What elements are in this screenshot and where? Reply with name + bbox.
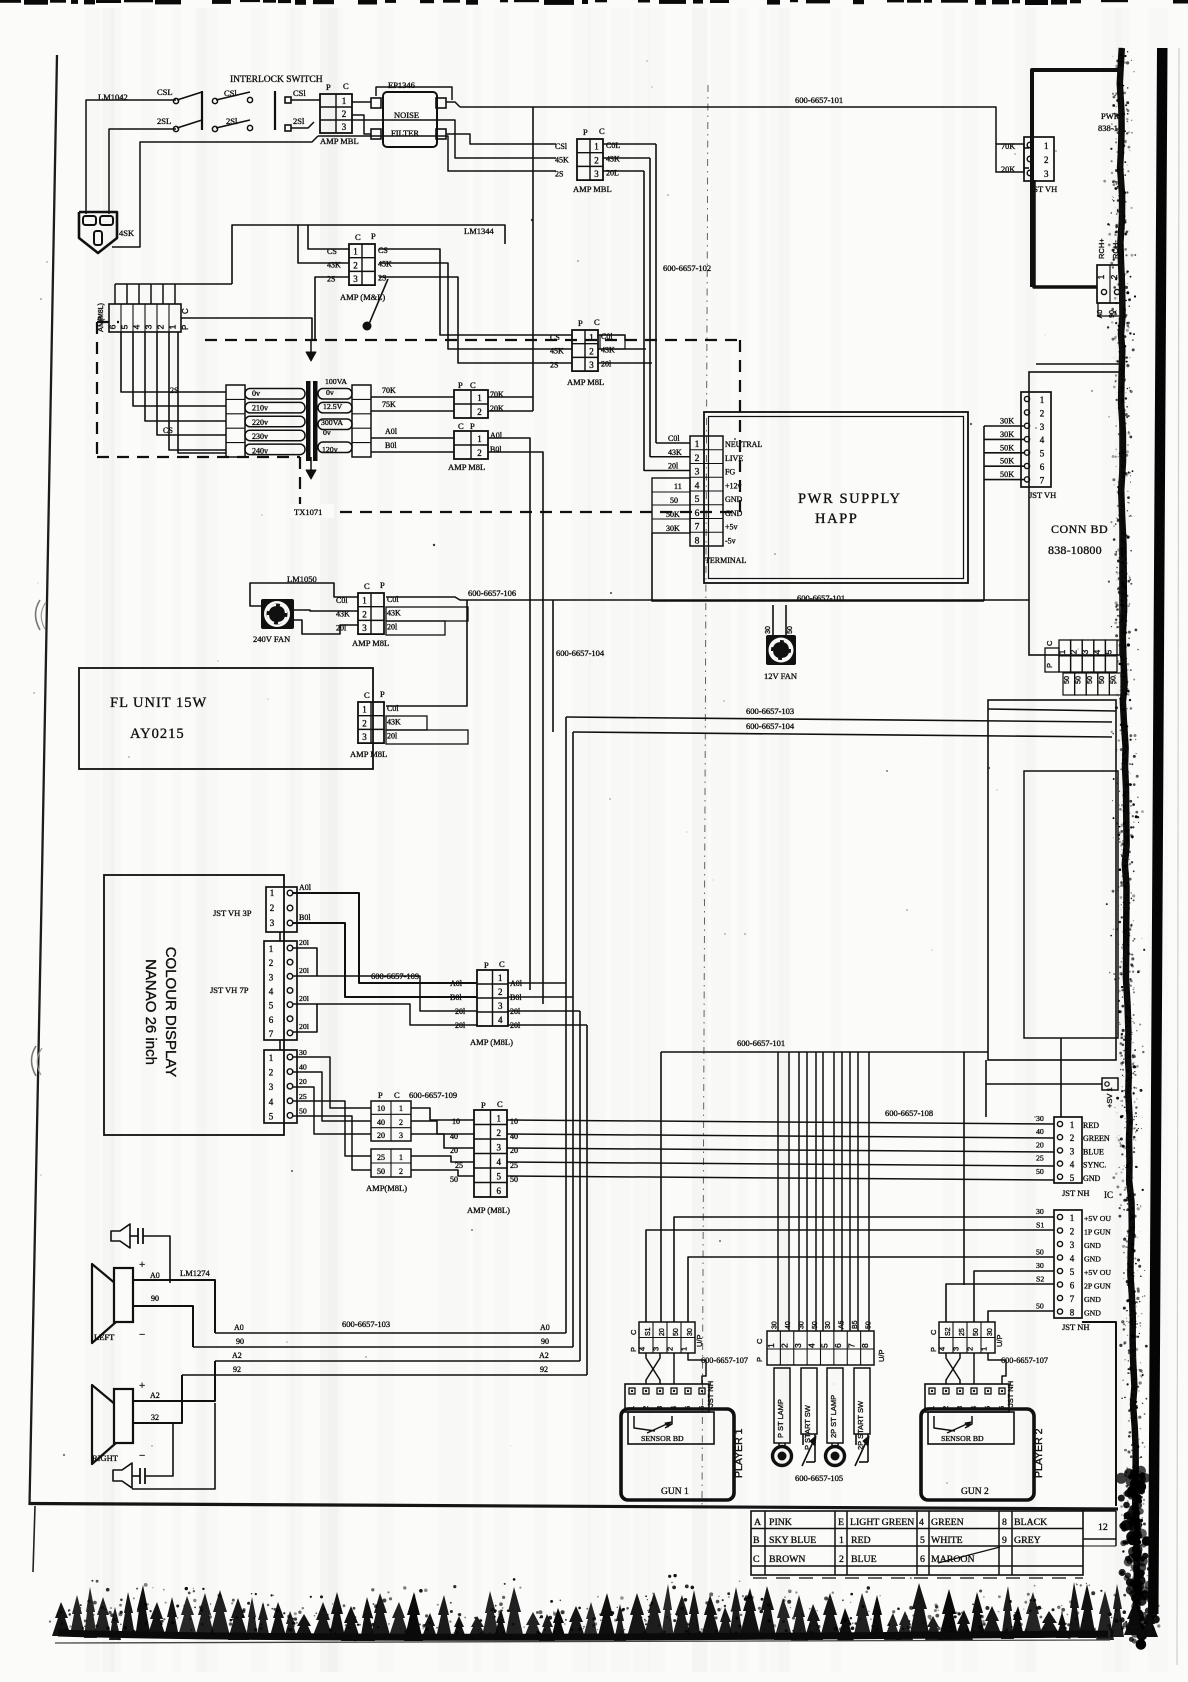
- mains plug 4SK: [79, 212, 135, 253]
- label PLAYER 1: [733, 1428, 745, 1478]
- svg-text:2: 2: [839, 1554, 844, 1565]
- wire video long 5: [507, 1176, 1054, 1180]
- svg-text:E: E: [838, 1517, 844, 1528]
- svg-text:IC: IC: [1104, 1190, 1113, 1200]
- svg-text:1: 1: [1097, 274, 1106, 279]
- label JST NH gun: [1062, 1322, 1089, 1332]
- wire 6pin top stubs: [115, 284, 232, 304]
- svg-text:AMP (M8L): AMP (M8L): [467, 1205, 510, 1215]
- svg-text:AMP MBL: AMP MBL: [573, 184, 612, 194]
- svg-text:5: 5: [269, 1001, 274, 1011]
- wire speakerR plus: [133, 1361, 215, 1401]
- label CONN BD: [1048, 522, 1108, 557]
- wire 6pin tap 3: [145, 332, 226, 421]
- svg-text:1: 1: [1058, 649, 1067, 654]
- connector JST NH 5p video: [1054, 1117, 1082, 1183]
- svg-text:90: 90: [151, 1294, 159, 1303]
- svg-text:3: 3: [498, 1001, 503, 1011]
- wire A0l display: [293, 883, 477, 983]
- svg-text:A: A: [754, 1517, 761, 1528]
- label 600-6657-101 low: [737, 1038, 785, 1048]
- svg-text:B0l: B0l: [385, 441, 397, 450]
- noise filter EP1346: [371, 92, 446, 147]
- svg-text:1: 1: [399, 1153, 403, 1162]
- label AMP (MBL) 4pin: [470, 1037, 513, 1047]
- svg-text:6: 6: [1070, 1281, 1075, 1291]
- svg-text:P: P: [929, 1347, 938, 1352]
- svg-text:20: 20: [450, 1146, 458, 1155]
- svg-text:C: C: [753, 1554, 760, 1565]
- svg-text:2: 2: [589, 346, 594, 356]
- connector U/P 8pin lamps: [755, 1331, 886, 1365]
- svg-text:3: 3: [362, 623, 367, 633]
- svg-text:3: 3: [594, 169, 599, 179]
- svg-text:AY0215: AY0215: [130, 726, 185, 742]
- svg-text:30: 30: [987, 1328, 994, 1336]
- svg-text:CS: CS: [378, 246, 388, 255]
- svg-text:50: 50: [1085, 676, 1094, 684]
- svg-text:600-6657-101: 600-6657-101: [737, 1038, 785, 1048]
- wire 6pin to dashed bus: [181, 318, 312, 340]
- svg-text:2S: 2S: [555, 169, 563, 178]
- svg-text:C: C: [499, 959, 505, 969]
- wire 6pin link: [232, 225, 505, 284]
- wire video pin3: [293, 1087, 371, 1134]
- svg-text:GREEN: GREEN: [1083, 1134, 1110, 1143]
- label 600-6657-107 P2: [1001, 1356, 1048, 1365]
- svg-text:P: P: [371, 231, 376, 241]
- dashed shield drop: [299, 457, 301, 512]
- svg-text:B0l: B0l: [299, 913, 311, 922]
- svg-text:EP1346: EP1346: [388, 80, 415, 90]
- label 600-6657-106: [468, 588, 516, 598]
- svg-text:4: 4: [937, 1347, 946, 1351]
- label gun pin 4 GND: [1084, 1255, 1101, 1264]
- svg-text:25: 25: [377, 1153, 385, 1162]
- label terminal 50K: [666, 510, 680, 519]
- label CS primary: [163, 426, 173, 435]
- table row 1: [754, 1517, 1047, 1528]
- svg-text:600-6657-108: 600-6657-108: [885, 1108, 933, 1118]
- wire 20K right: [488, 410, 533, 412]
- svg-text:2: 2: [965, 1347, 974, 1351]
- label TERMINAL: [705, 556, 746, 565]
- label video GND: [1083, 1174, 1101, 1183]
- svg-text:2: 2: [156, 324, 166, 329]
- svg-text:C: C: [181, 308, 190, 314]
- label LM1274: [180, 1268, 211, 1278]
- wire fan stub 1: [765, 605, 773, 635]
- svg-text:RED: RED: [1083, 1121, 1099, 1130]
- terminal block PWR SUPPLY: [690, 436, 762, 546]
- svg-text:30: 30: [772, 1321, 779, 1329]
- svg-text:2: 2: [269, 958, 274, 968]
- label tap 230v: [252, 432, 268, 441]
- wire +5V link: [986, 1084, 1102, 1117]
- wire gun S1: [646, 1230, 1054, 1322]
- svg-text:2: 2: [498, 987, 503, 997]
- svg-text:2P START SW: 2P START SW: [856, 1400, 865, 1450]
- table row 3: [753, 1554, 975, 1565]
- svg-text:8: 8: [860, 1343, 870, 1348]
- wire 75K: [371, 400, 454, 411]
- svg-text:B0l: B0l: [450, 993, 462, 1002]
- svg-text:50K: 50K: [1000, 470, 1014, 479]
- PWR SUPPLY outer harness shape: [652, 533, 984, 601]
- wire filter bypass top: [376, 87, 452, 100]
- svg-text:−: −: [139, 1329, 145, 1341]
- wire A0l sec: [371, 427, 454, 438]
- connector P C 2pin 70K: [454, 380, 504, 418]
- svg-text:C: C: [1045, 640, 1054, 646]
- wire plug to 2SL switch: [109, 129, 176, 214]
- svg-text:FL UNIT 15W: FL UNIT 15W: [110, 695, 207, 711]
- label gun pin 5 +5V OU: [1084, 1268, 1111, 1277]
- svg-text:40: 40: [785, 1321, 792, 1329]
- svg-text:10: 10: [510, 1117, 518, 1126]
- connector U/P 4pin P2: [929, 1322, 1004, 1353]
- wire AMP MBL3 out2: [598, 348, 646, 350]
- label 600-6657-103 top: [746, 706, 794, 716]
- label 600-6657-108: [885, 1108, 933, 1118]
- svg-text:1: 1: [477, 393, 482, 403]
- label FL UNIT 15W: [110, 695, 207, 711]
- svg-text:230v: 230v: [252, 432, 268, 441]
- svg-text:2: 2: [497, 1128, 502, 1138]
- connector JST VH 5P video: [264, 1050, 297, 1123]
- svg-text:2: 2: [362, 718, 367, 728]
- svg-text:FG: FG: [725, 468, 735, 477]
- svg-text:COLOUR DISPLAY: COLOUR DISPLAY: [162, 947, 179, 1078]
- svg-text:LIGHT GREEN: LIGHT GREEN: [850, 1517, 914, 1528]
- svg-text:50: 50: [812, 1321, 819, 1329]
- svg-text:50: 50: [1036, 1167, 1044, 1176]
- svg-text:25: 25: [1036, 1154, 1044, 1163]
- svg-text:2: 2: [269, 1068, 274, 1078]
- connector JST VH 7pin conn bd: [1021, 392, 1051, 487]
- svg-text:100VA: 100VA: [325, 377, 347, 386]
- label JST VH 7P: [210, 985, 249, 995]
- svg-text:SENSOR BD: SENSOR BD: [941, 1434, 984, 1443]
- PWR SUPPLY HAPP box: [704, 412, 968, 583]
- svg-text:U/P: U/P: [877, 1349, 886, 1362]
- svg-text:1: 1: [1044, 141, 1049, 151]
- svg-text:30: 30: [1036, 1261, 1044, 1270]
- wire game bottom link: [985, 1060, 987, 1084]
- svg-text:3: 3: [589, 360, 594, 370]
- svg-text:A0l: A0l: [385, 427, 398, 436]
- wire video long 4: [507, 1162, 1054, 1166]
- svg-text:6: 6: [695, 509, 700, 519]
- svg-text:50: 50: [1097, 676, 1106, 684]
- svg-text:70K: 70K: [1001, 142, 1015, 151]
- svg-text:INTERLOCK SWITCH: INTERLOCK SWITCH: [230, 75, 323, 85]
- svg-text:5: 5: [1040, 449, 1045, 459]
- svg-text:2: 2: [695, 454, 700, 464]
- svg-text:0v: 0v: [252, 389, 260, 398]
- wire A0l down: [488, 438, 530, 990]
- connector JST VH 7P: [264, 941, 297, 1040]
- connector AMP (M&L) LM1344: [327, 231, 392, 302]
- svg-text:30: 30: [798, 1321, 805, 1329]
- svg-text:20: 20: [659, 1328, 666, 1336]
- label lamp wire 50 7: [865, 1321, 872, 1329]
- wire 20l loop a: [293, 938, 317, 976]
- wire 50K to JST VH pin6: [984, 457, 1024, 467]
- svg-text:5: 5: [820, 1343, 830, 1348]
- svg-text:50: 50: [1108, 676, 1117, 684]
- svg-text:7: 7: [269, 1029, 274, 1039]
- interlock switch pole 2SL: [157, 116, 202, 132]
- wire 3P-7P link: [279, 932, 281, 941]
- wire 20l to AMP pin4: [317, 1004, 477, 1025]
- svg-text:11: 11: [674, 482, 682, 491]
- wire audio out1: [508, 982, 566, 984]
- svg-text:75K: 75K: [382, 400, 396, 409]
- svg-text:10: 10: [452, 1117, 460, 1126]
- wire LM1344 out3: [379, 277, 572, 363]
- label video RED: [1083, 1121, 1099, 1130]
- svg-text:210v: 210v: [252, 403, 268, 412]
- wire bus drop left: [660, 1052, 662, 1322]
- svg-text:C: C: [629, 1329, 638, 1335]
- svg-text:HAPP: HAPP: [815, 511, 858, 527]
- svg-text:1: 1: [399, 1104, 403, 1113]
- svg-text:120v: 120v: [322, 445, 338, 454]
- connector AMP (MBL) 6pin video: [450, 1099, 518, 1197]
- svg-text:4: 4: [806, 1343, 816, 1348]
- svg-text:30K: 30K: [1000, 430, 1014, 439]
- connector AMP MBL fl: [350, 689, 401, 759]
- svg-text:4: 4: [919, 1517, 924, 1528]
- svg-text:240V FAN: 240V FAN: [253, 634, 290, 644]
- svg-text:1: 1: [362, 705, 367, 715]
- svg-text:4: 4: [637, 1347, 646, 1351]
- wire B0l down: [488, 452, 543, 1004]
- svg-text:50: 50: [787, 626, 794, 634]
- wire P2 cross b: [946, 1353, 960, 1384]
- svg-text:2: 2: [1070, 1133, 1075, 1143]
- svg-text:4: 4: [1070, 1160, 1075, 1170]
- wire 6pin tap 6: [178, 332, 226, 453]
- svg-text:A0l: A0l: [299, 883, 312, 892]
- wire AMP MBL2 out1: [603, 143, 656, 145]
- wire P1 pin4: [688, 1353, 706, 1384]
- svg-text:20l: 20l: [299, 966, 310, 975]
- wire gun 50 p2: [988, 1311, 1054, 1322]
- svg-text:2: 2: [399, 1118, 403, 1127]
- svg-text:4: 4: [269, 986, 274, 996]
- interlock switch pole 2Sl mid: [212, 116, 252, 132]
- wire stub to 6pin 4: [411, 1156, 474, 1162]
- fan 240V: [261, 599, 294, 629]
- label gun pin 7 GND: [1084, 1295, 1101, 1304]
- label AMP MBL mains: [320, 136, 359, 146]
- svg-text:1P GUN: 1P GUN: [1084, 1228, 1111, 1237]
- svg-text:+5v: +5v: [725, 523, 738, 532]
- svg-text:LEFT: LEFT: [94, 1332, 115, 1342]
- label gun pin 2 1P GUN: [1084, 1228, 1111, 1237]
- svg-text:BROWN: BROWN: [769, 1554, 805, 1565]
- CONN BD 838-10800 box: [1029, 372, 1120, 655]
- wire bus drop 2: [788, 1052, 790, 1331]
- label gunL 30 4: [1036, 1261, 1044, 1270]
- table scribble: [938, 1547, 1000, 1563]
- label 12.5V: [323, 402, 343, 411]
- svg-text:600-6657-104: 600-6657-104: [746, 721, 795, 731]
- svg-text:2: 2: [477, 407, 482, 417]
- svg-text:3: 3: [1081, 649, 1090, 654]
- svg-text:300VA: 300VA: [321, 418, 343, 427]
- wire fan stub 20l: [386, 621, 445, 635]
- wire 600-6657-104 line: [573, 732, 1112, 737]
- wire fan loop return: [294, 620, 358, 634]
- label 600-6657-105: [795, 1473, 843, 1483]
- label tap 220v: [252, 418, 268, 427]
- svg-text:C: C: [755, 1338, 764, 1344]
- wire 70K: [371, 386, 454, 397]
- svg-text:JST VH 3P: JST VH 3P: [213, 908, 252, 918]
- label terminal 30K: [666, 524, 680, 533]
- svg-text:C: C: [458, 421, 464, 431]
- fan 12V: [766, 635, 796, 665]
- connector +5V small: [1102, 1078, 1118, 1108]
- svg-text:1: 1: [477, 434, 482, 444]
- svg-text:0v: 0v: [323, 428, 331, 437]
- svg-text:2P GUN: 2P GUN: [1084, 1282, 1111, 1291]
- svg-text:20l: 20l: [387, 731, 398, 740]
- svg-text:1: 1: [1070, 1120, 1075, 1130]
- wire video long 2: [507, 1134, 1054, 1138]
- svg-text:1: 1: [589, 333, 594, 343]
- wire 600-6657-106 line: [386, 597, 1029, 600]
- svg-text:6: 6: [108, 324, 118, 329]
- svg-text:P: P: [380, 580, 385, 590]
- speaker LEFT: [92, 1259, 160, 1343]
- svg-text:0v: 0v: [326, 388, 334, 397]
- svg-text:70K: 70K: [382, 386, 396, 395]
- svg-text:LM1344: LM1344: [464, 226, 495, 236]
- label lamp wire 30 0: [772, 1321, 779, 1329]
- PWR board 838 outline: [1032, 70, 1122, 364]
- svg-text:1: 1: [342, 96, 347, 106]
- label JST NH video: [1062, 1188, 1113, 1200]
- wire 30K to JST VH pin4: [984, 430, 1024, 440]
- svg-text:TX1071: TX1071: [294, 507, 322, 517]
- svg-text:+: +: [139, 1380, 145, 1392]
- wire JST VH bus: [983, 426, 985, 601]
- svg-text:45K: 45K: [378, 260, 392, 269]
- svg-text:4: 4: [269, 1097, 274, 1107]
- svg-text:GND: GND: [1084, 1309, 1101, 1318]
- wire 92 long: [182, 1365, 587, 1375]
- label AMP(MBL) stub: [366, 1183, 407, 1193]
- svg-text:1: 1: [362, 596, 367, 606]
- svg-text:6: 6: [920, 1554, 925, 1565]
- wire LM1344 out2: [379, 263, 572, 349]
- wire gun 30 p1: [674, 1217, 1054, 1322]
- FL UNIT 15W box: [79, 668, 373, 769]
- connector RCH rca: [1097, 238, 1123, 319]
- label tap 240v: [252, 447, 268, 456]
- svg-text:P: P: [458, 380, 463, 390]
- svg-text:CONN BD: CONN BD: [1051, 522, 1108, 536]
- svg-text:GND: GND: [1084, 1241, 1101, 1250]
- wire terminal 43K: [650, 448, 690, 457]
- svg-text:A2: A2: [232, 1351, 242, 1360]
- wire bus drop 3: [798, 1052, 800, 1331]
- label videoL 50: [1036, 1167, 1044, 1176]
- svg-text:50: 50: [973, 1328, 980, 1336]
- svg-text:4: 4: [1093, 649, 1102, 654]
- wire plug 4SK line: [112, 136, 318, 247]
- svg-text:2: 2: [1110, 274, 1119, 279]
- svg-text:2: 2: [353, 260, 358, 270]
- svg-text:2: 2: [270, 903, 275, 913]
- svg-text:3: 3: [362, 732, 367, 742]
- svg-text:GND: GND: [1083, 1174, 1101, 1183]
- label EP1346: [388, 80, 415, 90]
- sensor board P1: [628, 1412, 714, 1444]
- svg-text:BLUE: BLUE: [1083, 1147, 1104, 1156]
- switch 1P START SW: [801, 1368, 817, 1466]
- svg-text:600-6657-107: 600-6657-107: [1001, 1356, 1048, 1365]
- label video 20: [299, 1077, 307, 1086]
- svg-text:20L: 20L: [606, 168, 619, 177]
- svg-text:6: 6: [269, 1015, 274, 1025]
- svg-text:P: P: [380, 689, 385, 699]
- svg-text:GND: GND: [1084, 1255, 1101, 1264]
- connector AMP(MBL) stub 3row: [371, 1090, 411, 1141]
- svg-text:3: 3: [269, 972, 274, 982]
- label 0v sec2: [323, 428, 331, 437]
- label lamp wire 30 2: [798, 1321, 805, 1329]
- svg-text:C: C: [343, 81, 349, 91]
- svg-text:(M8L): (M8L): [98, 303, 105, 321]
- svg-text:RCH+: RCH+: [1097, 238, 1106, 259]
- connector AMP MBL mains: [320, 94, 352, 133]
- svg-text:3: 3: [497, 1142, 502, 1152]
- wire 90 long: [193, 1337, 573, 1347]
- label gun pin 6 2P GUN: [1084, 1282, 1111, 1291]
- label lamp wire A5 5: [839, 1320, 846, 1329]
- svg-text:AMP (M8L): AMP (M8L): [470, 1037, 513, 1047]
- svg-text:1: 1: [979, 1347, 988, 1351]
- dashed shield right: [739, 340, 741, 512]
- label 12V FAN: [764, 671, 797, 681]
- wire 50K to JST VH pin5: [984, 443, 1024, 453]
- wire video pin4: [293, 1101, 371, 1156]
- svg-text:7: 7: [1040, 475, 1045, 485]
- wire A2 long: [215, 1351, 580, 1361]
- label 600-6657-101 top: [795, 95, 843, 105]
- svg-text:50: 50: [673, 1328, 680, 1336]
- ground arrow top: [306, 340, 316, 361]
- svg-text:2: 2: [477, 448, 482, 458]
- switch 2P START SW: [854, 1368, 870, 1466]
- wire switched line to AMP MBL 2 pin3: [318, 136, 556, 171]
- svg-text:6: 6: [497, 1186, 502, 1196]
- svg-text:43K: 43K: [606, 155, 620, 164]
- svg-text:600-6657-103: 600-6657-103: [746, 706, 794, 716]
- label AY0215: [130, 726, 185, 742]
- label LM1344: [464, 226, 495, 236]
- transformer secondary tap strip: [352, 385, 371, 457]
- transformer secondary winding: [318, 389, 352, 453]
- svg-text:P: P: [470, 421, 475, 431]
- wire bus drop 5: [815, 1052, 817, 1331]
- svg-text:3: 3: [951, 1347, 960, 1351]
